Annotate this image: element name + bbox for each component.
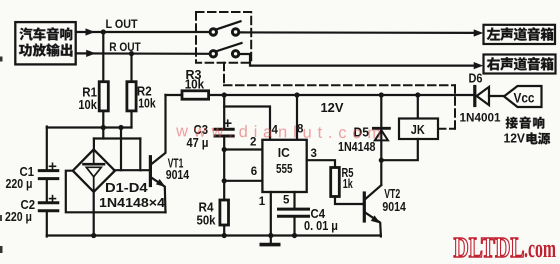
wire bridge bottom to ground rail [93,192,95,237]
ground symbol stub [270,237,272,244]
resistor R3 body [182,91,209,99]
wire horizontal above bridge [94,137,140,139]
diode D6 cathode bar [473,87,476,106]
resistor R3 lead left [166,94,183,96]
diode D5 cathode bar [373,127,389,130]
scan artifact marks [0,57,3,62]
wire pin5 to C4 [293,192,295,209]
label 接音响 [506,117,518,129]
switch blade L [216,21,241,29]
source box text line1 汽车音响 [19,27,32,40]
resistor R1 lead top [102,32,104,82]
transistor VT1 collector [152,95,166,164]
node rail-JK [415,92,420,97]
arrow into left speaker box [474,29,484,36]
wire R switch to right speaker box (jog) [239,54,475,66]
node bridge-ground [91,233,96,238]
svg-text:12V: 12V [504,132,526,146]
node rail-D5 [379,92,384,97]
transistor VT1 emitter arrow [156,179,166,187]
wire pin2 node to pin6 node [223,150,225,181]
node pin6-tap [222,178,227,183]
transistor VT2 emitter arrow [371,215,381,223]
capacitor C2 plate top [39,201,58,204]
linkage dashed vertical from contact box [223,63,225,86]
node R4-ground [222,233,227,238]
bridge internal wire bottom [93,178,95,191]
wire R OUT from box to switch [76,52,210,55]
svg-text:L OUT: L OUT [106,17,138,31]
resistor R4 body [220,200,229,225]
arrow on L OUT [86,28,96,35]
svg-text:220 μ: 220 μ [5,210,32,224]
capacitor C3 plate top [215,128,233,131]
wire C1 to C2 [46,179,48,203]
wire jog down to base line [139,139,141,171]
resistor R2 body [127,82,136,111]
svg-text:JK: JK [411,122,426,137]
svg-text:220 μ: 220 μ [6,177,33,191]
resistor R2 lead top [130,54,132,82]
wire pin3 [307,160,335,167]
svg-text:6: 6 [251,166,257,178]
wire rail to C3 [223,95,225,129]
capacitor C1 plate top [39,169,58,172]
wire C4 to ground [293,216,295,236]
linkage dashed stub to JK [438,128,455,130]
transistor VT2 base bar [363,193,366,221]
wire bridge left corner [66,171,166,213]
wire pin8 rail to IC [296,95,298,141]
node R (junction to R2) [129,51,134,56]
svg-text:1N4001: 1N4001 [460,111,501,125]
svg-text:50k: 50k [197,214,216,228]
switch contact L left [210,29,216,35]
node pin1-ground [268,233,273,238]
svg-text:10k: 10k [78,98,97,112]
left speaker box 左声道音箱 [484,25,556,44]
Vcc terminal flag [504,86,542,107]
node pin2-tap [222,147,227,152]
op IC 555 box [262,140,306,192]
svg-text:3: 3 [311,148,317,160]
node C4-ground [292,233,297,238]
amplifier output box (汽车音响 功放输出) [15,22,75,64]
wire collector node down [380,160,382,184]
wire branch to pin4 [224,107,270,141]
linkage dashed horizontal [224,84,455,86]
bridge internal diode triangle [86,167,101,177]
wire C2 to ground rail [46,211,48,237]
wire rail joining R1 R2 C1 [47,126,132,128]
switch contact L right [232,29,238,35]
diode D5 triangle [375,130,388,140]
left speaker box text [487,27,500,40]
wire D6 to Vcc [489,95,504,97]
switch contact R left [210,51,216,57]
capacitor C2 polarity + [50,198,56,200]
switch blade R [216,43,242,52]
capacitor C1 plate bottom [39,177,58,180]
capacitor C4 plate bottom [279,215,309,218]
svg-text:1k: 1k [343,177,353,191]
node L (junction to R1) [101,29,106,34]
transistor VT2 base lead [363,203,365,205]
resistor R4 lead bottom [223,225,225,237]
diode D6 triangle [477,87,489,105]
capacitor C1 polarity + [50,165,56,167]
resistor R5 body [331,168,340,197]
svg-text:10k: 10k [185,78,205,92]
relay coil JK box [399,119,438,140]
svg-text:9014: 9014 [166,168,190,182]
svg-text:R OUT: R OUT [109,40,141,54]
wire stub to bridge top [93,139,95,151]
wire R1 tap down [102,128,104,139]
wire JK top [417,95,419,119]
wire rail to D5 to collector node [380,95,382,160]
bridge internal cathode bar [84,163,105,166]
switch contact R right [232,51,238,57]
svg-text:0. 01 μ: 0. 01 μ [304,219,338,233]
node rail-pin8 [294,92,299,97]
wire 12V rail [209,94,474,96]
bridge internal wire top [93,151,95,164]
wire pin6 node to R4 [223,181,225,200]
resistor R1 body [99,82,108,111]
svg-text:12V: 12V [321,101,345,115]
resistor R1 lead bottom [102,111,104,128]
source box text line2 功放输出 [19,44,32,57]
svg-text:10k: 10k [138,97,156,111]
svg-text:D1-D4: D1-D4 [105,181,148,195]
wire pin2 [224,148,262,150]
resistor R5 lead bottom [335,197,363,205]
ground symbol bar [261,243,278,247]
wire rail to C1 [46,127,48,171]
wire L OUT from box to switch [76,31,210,33]
svg-text:555: 555 [276,161,293,176]
svg-text:1: 1 [259,196,266,208]
capacitor C4 plate top [279,208,309,211]
transistor VT2 collector [366,185,382,199]
label 12V电源 (cjk part) [526,132,537,144]
right speaker box 右声道音箱 [484,55,556,74]
wire bridge right to VT1 base [114,169,149,171]
wire ground rail [47,234,381,236]
svg-text:IC: IC [278,145,290,160]
wire pin6 [224,180,262,182]
linkage dashed vertical right [454,85,456,128]
node rail-C3 [222,92,227,97]
wire rail tap down to bridge right [120,128,122,171]
transistor VT1 emitter [152,178,166,213]
svg-text:1N4148×4: 1N4148×4 [99,196,165,210]
wire L switch to left speaker box [239,31,475,34]
bridge rectifier D1-D4 diamond [73,149,115,192]
svg-text:5: 5 [283,195,290,207]
node D5-collector [379,158,384,163]
arrow into right speaker box [474,62,484,69]
svg-text:DLTDL: DLTDL [454,232,525,264]
svg-text:Vcc: Vcc [514,90,535,105]
relay contact enclosure (dashed) [196,12,251,63]
node R1-rail [101,125,106,130]
resistor R2 lead bottom [130,111,132,128]
wire C3 to pin2 node [223,136,225,150]
svg-text:.com: .com [524,234,556,263]
wire pin1 to ground [270,192,272,237]
wire JK bottom [381,139,418,160]
capacitor C3 polarity + [225,122,231,124]
capacitor C2 plate bottom [39,209,58,212]
svg-text:R4: R4 [199,200,214,214]
transistor VT2 emitter [366,213,381,237]
right speaker box text [487,57,500,70]
capacitor C3 plate bottom [215,135,233,138]
svg-text:9014: 9014 [382,200,406,214]
arrow on R OUT [86,50,96,57]
svg-text:www.dianlut.com: www.dianlut.com [175,122,387,142]
node bridge-tap-rail [118,125,123,130]
svg-text:D6: D6 [469,72,483,86]
transistor VT1 base bar [149,157,152,186]
